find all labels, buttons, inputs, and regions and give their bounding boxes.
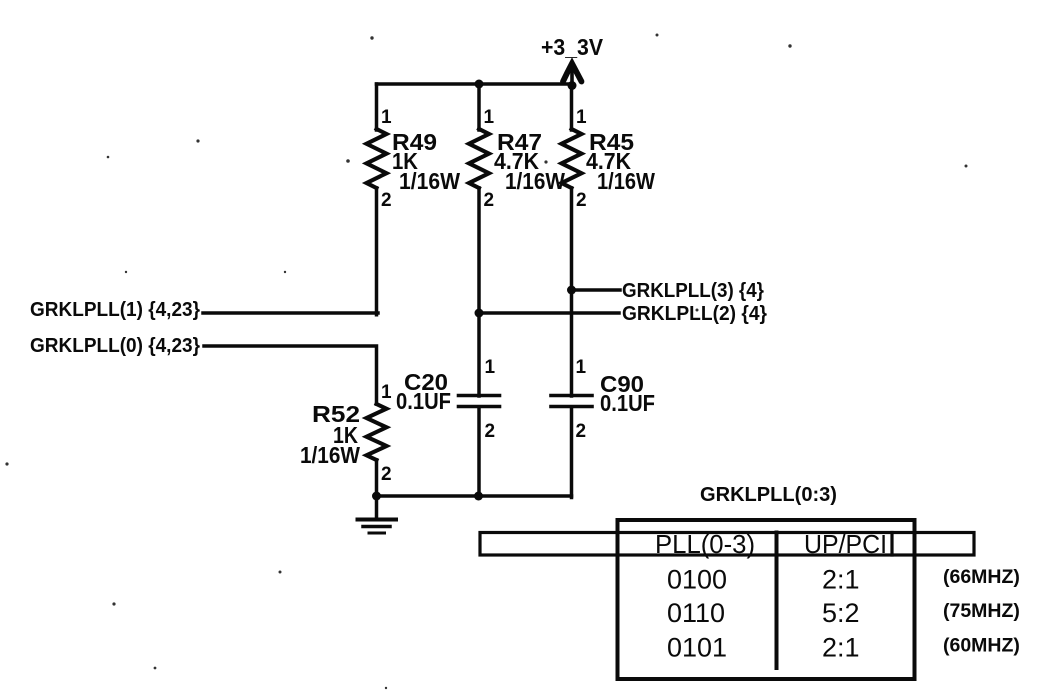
svg-text:+3_3V: +3_3V [541,34,604,60]
junction dot bottom rail / R52 [372,492,381,501]
junction dot power / column C [568,81,577,90]
svg-text:GRKLPLL(1) {4,23}: GRKLPLL(1) {4,23} [30,299,200,321]
svg-text:2: 2 [381,464,392,485]
svg-text:0110: 0110 [667,598,725,628]
svg-text:0.1UF: 0.1UF [396,388,451,414]
table header inner divider [890,533,893,556]
svg-text:1: 1 [381,382,392,403]
power +3_3V arrow [563,64,582,87]
wire top rail [377,82,573,86]
svg-text:0100: 0100 [667,565,727,595]
svg-text:2:1: 2:1 [822,633,860,663]
svg-text:1/16W: 1/16W [300,442,360,468]
resistor R49 [367,129,387,188]
svg-text:GRKLPLL(2) {4}: GRKLPLL(2) {4} [622,303,767,325]
svg-text:1: 1 [576,107,587,128]
ground [358,494,397,533]
svg-text:1: 1 [381,107,392,128]
svg-text:PLL(0-3): PLL(0-3) [655,529,755,559]
wire GRKLPLL(0) [204,346,377,404]
wire bottom rail [377,494,572,498]
svg-text:(75MHZ): (75MHZ) [943,600,1020,622]
svg-text:2: 2 [484,190,495,211]
table column divider [775,533,779,669]
svg-text:GRKLPLL(0:3): GRKLPLL(0:3) [700,484,837,506]
svg-text:2:1: 2:1 [822,565,860,595]
junction dot top rail / column B [475,80,484,89]
wire column A top [375,84,379,130]
svg-text:1/16W: 1/16W [505,168,565,194]
wire column C bottom [570,407,574,498]
capacitor C90 [551,396,592,407]
wire column A middle [375,188,379,315]
resistor R45 [562,129,582,188]
svg-text:1: 1 [484,107,495,128]
table outer box [618,520,915,679]
svg-text:(60MHZ): (60MHZ) [943,635,1020,657]
junction dot GRKLPLL(2) [475,309,484,318]
svg-text:5:2: 5:2 [822,598,860,628]
svg-text:1: 1 [485,357,496,378]
svg-text:1: 1 [576,357,587,378]
wire GRKLPLL(3) [572,288,621,292]
svg-text:GRKLPLL(3) {4}: GRKLPLL(3) {4} [622,280,764,302]
wire GRKLPLL(2) [479,311,619,315]
junction dot bottom rail / column B [474,492,483,501]
wire GRKLPLL(1) [203,311,378,315]
resistor R47 [469,129,489,188]
svg-text:2: 2 [576,190,587,211]
wire column B bottom [477,407,481,498]
wire R52 to bottom rail [375,460,379,497]
capacitor C20 [459,396,500,407]
svg-text:1/16W: 1/16W [399,168,460,194]
svg-text:GRKLPLL(0) {4,23}: GRKLPLL(0) {4,23} [30,335,200,357]
table header bar [480,533,974,556]
svg-text:2: 2 [576,421,587,442]
svg-text:1/16W: 1/16W [597,168,655,194]
svg-text:UP/PCI: UP/PCI [804,529,887,559]
svg-text:0.1UF: 0.1UF [600,390,655,416]
svg-text:(66MHZ): (66MHZ) [943,566,1020,588]
svg-text:2: 2 [381,190,392,211]
svg-text:2: 2 [485,421,496,442]
resistor R52 [367,404,387,460]
svg-text:0101: 0101 [667,633,727,663]
wire column B middle [477,188,481,396]
junction dot GRKLPLL(3) [567,286,576,295]
wire column C middle [570,188,574,396]
wire column C top [570,84,574,130]
wire column B top [477,84,481,130]
